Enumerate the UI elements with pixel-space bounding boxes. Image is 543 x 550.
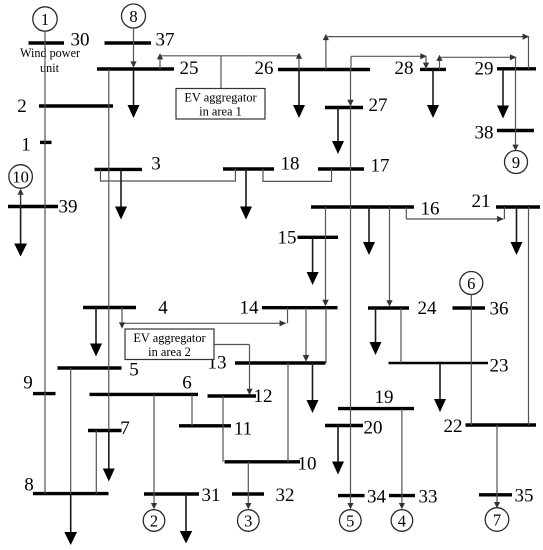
bus 13 [208,353,326,374]
wire 7-8 [95,431,97,494]
load at bus 23 [434,363,446,412]
wire 16-21 loop with right arrow [406,207,504,222]
generator G6 circle [460,272,483,295]
bus 9 [23,373,55,394]
svg-text:3: 3 [151,154,161,175]
load at bus 24 [370,308,382,355]
wire G6-36-23-22 [470,295,472,426]
bus 6 [90,373,199,395]
svg-text:15: 15 [278,228,297,249]
wire 6-31-G2 with arrow into G2 [151,394,157,509]
wire 12-11-10 [222,396,224,462]
load at bus 3 [115,169,127,219]
generator G1 circle [33,7,57,31]
load at bus 21 [511,207,523,255]
svg-text:28: 28 [395,58,414,79]
svg-text:26: 26 [255,58,274,79]
wire 24-23 [400,308,402,363]
wire 16-24 with arrow into bus 24 [386,207,392,307]
bus 30 [29,30,90,51]
EV aggregator area 2 box [125,329,214,360]
svg-text:23: 23 [490,356,509,377]
bus 36 [453,299,509,320]
svg-text:3: 3 [244,511,252,530]
svg-text:30: 30 [71,30,90,51]
svg-text:EV aggregator: EV aggregator [184,91,257,105]
wire 21-22 [528,207,530,425]
wire EV1 link 25-26 with up arrows [157,53,302,70]
svg-text:EV aggregator: EV aggregator [133,331,206,345]
bus 19 [338,387,414,409]
svg-text:2: 2 [150,511,158,530]
wire 10-32-G3 with arrow into G3 [245,462,251,509]
generator G10 circle [9,165,33,189]
bus 15 [278,228,339,249]
wire chain 26-27-17-16-19-20-34-G5 with arrows at bus 27 and G5 [347,70,353,510]
svg-text:35: 35 [515,486,534,507]
bus 33 [389,487,438,508]
wire 16-15-14 with arrow into bus 14 [322,207,329,306]
wire 14-13 with arrow into bus 13 [303,308,310,362]
load at bus 26 [293,70,305,119]
wire 28-29-38-G9 loop with up, right and down arrows [436,54,518,151]
EV aggregator area 1 box [176,89,265,120]
svg-text:12: 12 [254,386,273,407]
bus 7 [88,418,130,439]
load at bus 25 [128,69,140,118]
bus 3 [95,154,161,175]
wire 13-10 [287,363,289,462]
wire chain 25-2-3-4-5-6-7 [108,69,110,431]
svg-text:20: 20 [364,418,383,439]
svg-text:1: 1 [41,10,49,29]
wire U-loop 18-17 [263,169,332,181]
generator G4 circle [391,510,413,532]
svg-text:5: 5 [129,360,139,381]
wire G8-37-25 with arrow into bus 25 [130,28,136,68]
wire 14-13 [325,308,327,363]
bus 2 [17,96,113,117]
svg-text:in area 1: in area 1 [199,105,242,119]
bus 25 [97,58,199,79]
bus 32 [232,485,295,506]
svg-text:6: 6 [182,373,192,394]
svg-text:7: 7 [120,418,130,439]
bus 5 [58,360,139,381]
wire 26-28 loop with right and down arrows [351,53,429,69]
bus 34 [338,487,387,508]
bus 17 [318,156,390,177]
svg-text:21: 21 [472,191,491,212]
wire U-loop 3-18 [101,169,236,181]
wire 19-33-G4 with arrow into G4 [399,409,405,510]
load at bus 15 [307,237,319,285]
bus 38 [475,123,535,144]
bus 14 [240,298,338,319]
svg-text:32: 32 [276,485,295,506]
wind power unit caption [20,46,80,75]
svg-text:9: 9 [512,153,520,172]
svg-text:in area 2: in area 2 [148,345,191,359]
svg-text:unit: unit [40,61,60,75]
wire 6-11 [191,394,193,425]
wire chain G1-30-2-1-39-9-8 [44,31,46,493]
svg-text:34: 34 [367,487,387,508]
load at bus 29 [497,69,509,119]
svg-text:8: 8 [24,475,34,496]
load at bus 4 [90,308,102,357]
load at bus 28 [427,69,439,118]
bus 12 [208,386,273,407]
load at bus 18 [240,169,252,220]
bus 35 [479,486,534,507]
svg-text:39: 39 [59,197,78,218]
svg-text:19: 19 [375,387,394,408]
generator G9 circle [505,151,528,174]
load at bus 16 [363,207,375,255]
svg-text:17: 17 [371,156,390,177]
svg-text:1: 1 [21,135,31,156]
svg-text:37: 37 [156,30,175,51]
bus 1 [21,135,51,156]
bus 4 [83,298,168,319]
bus 37 [105,30,175,51]
svg-text:18: 18 [281,154,300,175]
svg-text:2: 2 [17,96,27,117]
svg-text:9: 9 [23,373,33,394]
load at bus 13 [307,363,319,413]
wire EV1 box stub [220,56,222,89]
generator G5 circle [340,510,362,532]
generator G2 circle [143,510,165,532]
generator G7 circle [485,508,509,532]
svg-text:31: 31 [202,485,221,506]
svg-text:22: 22 [444,416,463,437]
bus 27 [325,95,388,116]
generator G8 circle [122,4,146,28]
load at bus 8 [64,494,77,545]
svg-text:33: 33 [419,487,438,508]
bus 29 [475,59,537,80]
bus 39 [8,197,78,218]
bus 23 [389,356,509,377]
bus 16 [311,199,440,220]
load at bus 7 [103,431,115,482]
bus 24 [368,298,437,319]
bus 20 [325,418,383,439]
load at bus 20 [332,426,344,475]
load at bus 27 [332,108,344,155]
svg-text:27: 27 [369,95,388,116]
svg-text:4: 4 [398,511,406,530]
bus 28 [395,58,447,79]
generator G3 circle [238,510,260,532]
bus 11 [179,419,252,440]
svg-text:24: 24 [418,298,438,319]
svg-text:16: 16 [421,199,440,220]
svg-text:5: 5 [346,511,354,530]
wire 5-8 [70,368,72,494]
bus 18 [223,154,300,175]
svg-text:14: 14 [240,298,260,319]
wire arrow into EV2 box top [119,322,125,328]
wire 26-29 upper loop with up and right arrows [323,34,529,70]
bus 10 [225,454,317,475]
svg-text:6: 6 [467,274,475,293]
wire EV2 box to bus 12 with down arrow [214,345,253,396]
wire 4-14 loop with right arrow [122,308,288,327]
svg-text:36: 36 [490,299,509,320]
wire 39-G10 with arrow into G10 [18,189,24,207]
load at bus 39 [14,207,27,257]
svg-text:29: 29 [475,59,494,80]
bus 22 [444,416,537,437]
bus 26 [255,58,371,79]
svg-text:38: 38 [475,123,494,144]
bus 8 [24,475,108,496]
svg-text:25: 25 [180,58,199,79]
svg-text:8: 8 [129,7,137,26]
bus 31 [144,485,221,506]
load at bus 31 [180,494,192,544]
svg-text:10: 10 [12,167,29,186]
svg-text:10: 10 [298,454,317,475]
svg-text:7: 7 [493,510,501,529]
svg-text:11: 11 [234,419,252,440]
bus 21 [472,191,541,212]
svg-text:4: 4 [158,298,168,319]
wire 22-35-G7 with arrow into G7 [494,425,500,508]
